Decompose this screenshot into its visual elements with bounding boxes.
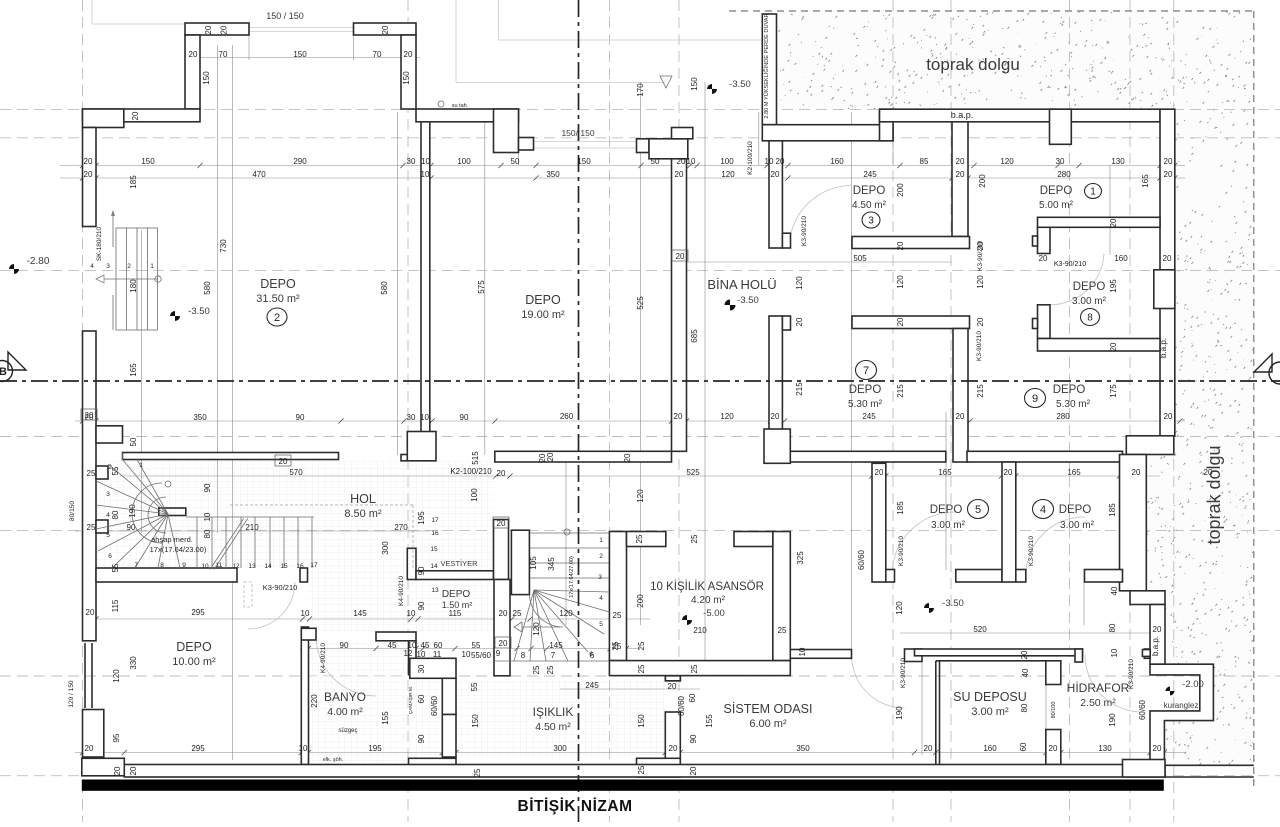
svg-text:3.00 m²: 3.00 m² [971,706,1009,718]
bina holu east wall upper [769,141,782,248]
svg-text:30: 30 [1056,157,1065,166]
svg-text:3: 3 [868,216,874,227]
svg-text:90: 90 [340,641,349,650]
svg-text:20: 20 [875,468,884,477]
section marker right [1269,362,1280,384]
svg-text:55: 55 [472,641,481,650]
svg-text:5: 5 [106,532,110,539]
svg-text:90: 90 [460,413,469,422]
svg-text:25: 25 [611,641,620,650]
svg-text:b.a.p.: b.a.p. [1159,338,1168,358]
svg-text:270: 270 [394,523,408,532]
svg-text:DEPO: DEPO [1073,281,1106,293]
svg-text:30: 30 [417,664,426,673]
svg-text:20: 20 [113,766,122,775]
column at bina holu SE [764,429,790,463]
svg-text:150: 150 [402,71,411,85]
svg-text:20: 20 [189,50,198,59]
svg-text:9: 9 [496,649,501,658]
svg-text:2.80 M YÜKSEKLİĞİNDE PERDE DUV: 2.80 M YÜKSEKLİĞİNDE PERDE DUVAR [763,13,770,118]
svg-text:kuranglez: kuranglez [1164,701,1199,710]
hidrafor door jamb [1075,649,1083,662]
svg-text:165: 165 [129,363,138,377]
svg-text:8: 8 [521,651,526,660]
left wall lower block [83,710,104,758]
svg-text:165: 165 [938,468,952,477]
svg-text:25: 25 [637,641,646,650]
left wall upper segment [83,128,97,227]
svg-text:19.00 m²: 19.00 m² [521,309,565,321]
svg-text:20: 20 [1164,170,1173,179]
svg-text:2: 2 [127,263,131,270]
svg-text:505: 505 [853,254,867,263]
svg-text:160: 160 [1114,254,1128,263]
svg-text:80: 80 [1108,623,1117,632]
isiklik east wall [665,712,680,758]
perde duvar horizontal band [762,125,893,141]
svg-text:25: 25 [635,534,644,543]
svg-text:730: 730 [219,239,228,253]
svg-text:55: 55 [111,466,120,475]
svg-text:8: 8 [160,562,164,569]
svg-text:20: 20 [776,157,785,166]
svg-text:DEPO: DEPO [525,293,561,307]
perde duvar step connector [880,109,894,141]
door arc K3-90/210 depo5 [892,512,956,575]
svg-text:200: 200 [636,594,645,608]
svg-text:100: 100 [720,157,734,166]
svg-text:20: 20 [204,25,213,34]
svg-text:1: 1 [139,462,143,469]
svg-text:3: 3 [106,491,110,498]
svg-text:195: 195 [1109,279,1118,293]
svg-text:20: 20 [771,170,780,179]
svg-text:20: 20 [956,157,965,166]
svg-text:30: 30 [407,157,416,166]
depo7-depo9 divider [953,329,968,463]
column tab [401,455,407,461]
svg-text:20: 20 [404,50,413,59]
svg-text:12: 12 [404,649,413,658]
svg-text:2: 2 [599,553,603,560]
south band depo9-depo4 [967,451,1123,462]
svg-text:150: 150 [202,71,211,85]
svg-text:4: 4 [599,595,603,602]
svg-text:150: 150 [637,714,646,728]
svg-text:180: 180 [129,279,138,293]
svg-text:20: 20 [1164,412,1173,421]
wall vertical right of protrusion [401,35,416,109]
svg-text:10: 10 [201,563,209,570]
banyo niche wall a [409,641,417,675]
svg-text:25: 25 [87,523,96,532]
main stair fan (HOL) [159,508,186,516]
svg-text:150: 150 [690,77,699,91]
svg-text:su tah.: su tah. [452,103,469,109]
wall band y109 right part [416,109,519,122]
dimension tick marks [80,163,1183,755]
svg-text:K4-90/210: K4-90/210 [320,643,327,673]
east wall (depo4 side) [1120,455,1147,591]
svg-text:20: 20 [86,608,95,617]
svg-text:DEPO: DEPO [930,504,963,516]
hatch boundary dashed [1253,11,1255,790]
depo7 north band [852,316,970,329]
su deposu north line [936,660,1046,662]
svg-text:100: 100 [470,488,479,502]
svg-text:DEPO: DEPO [1053,384,1086,396]
lower stair (to elevator) [511,530,529,594]
svg-text:20: 20 [1020,650,1029,659]
svg-text:20: 20 [976,241,985,250]
svg-text:245: 245 [862,412,876,421]
svg-text:DEPO: DEPO [1059,504,1092,516]
svg-text:toprak dolgu: toprak dolgu [1204,445,1224,544]
svg-text:20: 20 [499,639,508,648]
svg-text:1: 1 [1090,187,1096,198]
svg-text:BİNA HOLÜ: BİNA HOLÜ [707,277,776,292]
svg-text:120: 120 [559,609,573,618]
svg-text:DEPO: DEPO [260,277,296,291]
entry band piece [672,128,693,139]
svg-text:20: 20 [956,412,965,421]
svg-text:245: 245 [863,170,877,179]
su deposu west wall line b [939,661,941,765]
section line vertical [578,0,580,822]
stair arrow [104,278,158,280]
svg-text:20: 20 [1109,342,1118,351]
svg-text:55: 55 [470,682,479,691]
svg-text:8.50 m²: 8.50 m² [344,508,382,520]
svg-text:3: 3 [106,263,110,270]
svg-text:130: 130 [1111,157,1125,166]
stair hall north thin band [123,453,339,460]
svg-text:200: 200 [896,183,905,197]
svg-text:20: 20 [976,317,985,326]
door arc K3-90/210 depo3 [789,186,852,249]
svg-text:20: 20 [676,252,685,261]
svg-text:50: 50 [511,157,520,166]
svg-text:4.50 m²: 4.50 m² [535,721,571,733]
svg-text:3.00 m²: 3.00 m² [931,520,966,531]
svg-text:K3-90/210: K3-90/210 [1054,261,1086,268]
svg-text:350: 350 [193,413,207,422]
svg-text:50: 50 [129,437,138,446]
svg-text:ÇAMAŞIR M.: ÇAMAŞIR M. [408,686,414,715]
svg-text:160: 160 [830,157,844,166]
svg-text:2: 2 [274,312,280,324]
svg-text:300: 300 [553,744,567,753]
svg-text:155: 155 [705,714,714,728]
svg-text:130: 130 [1098,744,1112,753]
svg-text:30: 30 [407,413,416,422]
section marker left B [0,361,13,382]
svg-text:5: 5 [975,504,981,516]
south band depo7 [790,451,946,462]
svg-text:10: 10 [798,647,807,656]
isiklik notch [665,676,680,681]
svg-text:20: 20 [896,241,905,250]
svg-text:K2-100/210: K2-100/210 [450,467,492,476]
south band HOL-bina holu left part [495,451,672,462]
east wall pier bap [1154,270,1175,309]
svg-text:HOL: HOL [350,492,376,506]
svg-text:2: 2 [108,464,112,471]
svg-text:115: 115 [449,609,462,618]
su deposu east wall lower [1046,730,1061,765]
svg-text:685: 685 [690,329,699,343]
svg-text:9: 9 [1032,393,1038,405]
banyo east wall lower [442,715,456,758]
svg-text:1: 1 [150,263,154,270]
svg-text:10: 10 [687,157,696,166]
svg-text:10: 10 [462,650,471,659]
bottom outer wall band [124,765,1165,778]
svg-text:150 / 150: 150 / 150 [266,11,304,21]
svg-text:195: 195 [417,511,426,525]
svg-text:20: 20 [497,519,506,528]
east wall step [1130,591,1165,605]
svg-text:25: 25 [690,534,699,543]
svg-text:150: 150 [141,157,155,166]
svg-text:K4-90/210: K4-90/210 [398,576,405,606]
svg-text:220: 220 [310,694,319,708]
svg-text:10: 10 [203,512,212,521]
svg-text:10: 10 [1110,648,1119,657]
svg-text:90: 90 [203,483,212,492]
svg-text:20: 20 [279,457,288,466]
svg-text:190: 190 [1108,713,1117,727]
svg-text:BİTİŞİK NİZAM: BİTİŞİK NİZAM [518,798,633,815]
svg-text:85: 85 [920,157,929,166]
svg-text:7: 7 [863,365,869,377]
svg-text:90: 90 [417,566,426,575]
svg-text:K3-90/210: K3-90/210 [1128,659,1135,689]
svg-text:20: 20 [1164,157,1173,166]
svg-text:20: 20 [1039,254,1048,263]
svg-text:120: 120 [795,276,804,290]
svg-text:105: 105 [529,556,538,570]
svg-text:295: 295 [191,608,205,617]
bottom boundary black bar [82,780,1164,791]
su deposu west wall line a [935,661,937,765]
svg-text:-2.80: -2.80 [27,256,50,267]
svg-text:60/60: 60/60 [857,549,866,570]
svg-text:4: 4 [90,263,94,270]
door arc K3-90/210 depo10 [248,582,295,629]
svg-text:K3-90/210: K3-90/210 [263,583,298,592]
svg-text:120: 120 [1000,157,1014,166]
svg-text:80/100: 80/100 [1051,702,1057,719]
door arc K3-90/210 depo8 [1050,254,1104,305]
svg-text:60: 60 [1019,742,1028,751]
depo5 door jamb [886,570,895,583]
svg-text:-2.00: -2.00 [1182,679,1204,690]
svg-text:150: 150 [577,157,591,166]
svg-text:7: 7 [134,562,138,569]
svg-text:17: 17 [310,562,318,569]
svg-text:95: 95 [112,733,121,742]
svg-text:VESTİYER: VESTİYER [440,559,478,568]
svg-text:SK-180/210: SK-180/210 [96,226,103,261]
wall small tooth [519,138,534,151]
depo5-depo4 divider [1002,462,1016,582]
svg-text:20: 20 [84,157,93,166]
dimension lines [60,165,1185,167]
svg-text:ahşap merd.: ahşap merd. [151,535,193,544]
bottom band step (banyo) [409,758,457,776]
svg-text:115: 115 [111,599,120,612]
svg-text:80: 80 [203,529,212,538]
bina holu east wall lower [769,316,782,451]
svg-text:70: 70 [219,50,228,59]
svg-text:20: 20 [1004,468,1013,477]
bottom extension line a [1165,764,1254,766]
svg-text:20: 20 [1132,468,1141,477]
wall top band left [185,23,249,35]
svg-text:120: 120 [532,622,541,636]
svg-text:25: 25 [546,665,555,674]
svg-text:13: 13 [431,587,439,594]
depo3 south band [852,237,970,249]
banyo north wall piece [376,632,416,641]
svg-text:210: 210 [245,523,259,532]
depo8 bottom band [1038,339,1161,352]
north outer wall band [880,109,1161,122]
svg-text:90: 90 [127,523,136,532]
svg-text:470: 470 [252,170,266,179]
svg-text:20: 20 [771,412,780,421]
band end jamb [300,568,308,582]
svg-text:55: 55 [111,563,120,572]
svg-text:185: 185 [129,175,138,189]
door arc K3-90/210 depo4 [1026,517,1085,575]
svg-text:25: 25 [513,609,522,618]
svg-text:10: 10 [299,744,308,753]
svg-text:5.00 m²: 5.00 m² [1039,200,1074,211]
svg-text:185: 185 [1108,503,1117,517]
su deposu east wall upper [1046,661,1061,685]
svg-text:40: 40 [1110,586,1119,595]
svg-text:17x(17.64/23.00): 17x(17.64/23.00) [150,545,207,554]
left wall step block [96,426,123,443]
wall vertical left of protrusion [185,35,200,109]
svg-text:90: 90 [417,734,426,743]
svg-text:525: 525 [686,468,700,477]
svg-text:145: 145 [549,641,563,650]
svg-text:6.00 m²: 6.00 m² [749,718,787,730]
svg-text:11: 11 [433,650,442,659]
svg-text:15: 15 [430,546,438,553]
svg-text:25: 25 [532,665,541,674]
svg-text:60/60: 60/60 [677,695,686,716]
svg-text:20: 20 [668,682,677,691]
svg-text:100: 100 [457,157,471,166]
svg-text:K2-100/210: K2-100/210 [747,141,754,175]
svg-text:200: 200 [978,174,987,188]
elevator south band [609,661,790,676]
svg-text:2.50 m²: 2.50 m² [1080,697,1116,709]
svg-text:300: 300 [381,541,390,555]
depo10 north band [96,568,237,582]
svg-text:45: 45 [421,641,430,650]
svg-text:K3-90/210: K3-90/210 [801,216,808,246]
bottom band step (isiklik) [637,758,681,777]
depo8 jamb notch b [1033,319,1038,329]
door jamb [782,233,790,248]
svg-text:11: 11 [216,562,223,569]
svg-text:120: 120 [112,669,121,683]
svg-text:20: 20 [1163,254,1172,263]
svg-text:K3-90/210: K3-90/210 [1028,536,1035,566]
stair west wall lower [494,580,510,676]
svg-text:25: 25 [637,664,646,673]
wall pillar block [494,109,519,153]
svg-text:350: 350 [546,170,560,179]
svg-text:DEPO: DEPO [1040,185,1073,197]
svg-text:4.00 m²: 4.00 m² [327,706,363,718]
svg-text:160: 160 [983,744,997,753]
banyo east wall upper [442,678,456,714]
svg-text:3.00 m²: 3.00 m² [1072,296,1107,307]
svg-text:525: 525 [636,296,645,310]
corridor-depo5 west wall [872,463,886,582]
door jamb [782,316,790,330]
svg-text:10 KİŞİLİK ASANSÖR: 10 KİŞİLİK ASANSÖR [650,580,764,593]
svg-text:60: 60 [417,694,426,703]
sistem north thin wall [790,650,851,659]
svg-text:120: 120 [976,275,985,289]
svg-text:580: 580 [203,281,212,295]
svg-text:5: 5 [599,621,603,628]
svg-text:20: 20 [1153,744,1162,753]
perde duvar vertical [762,14,776,125]
svg-text:IŞIKLIK: IŞIKLIK [533,705,574,719]
left wall pier a [96,466,108,479]
svg-text:DEPO: DEPO [442,589,471,600]
svg-text:20: 20 [1153,625,1162,634]
svg-text:190: 190 [895,706,904,720]
svg-text:120: 120 [895,601,904,615]
svg-text:20: 20 [85,411,94,420]
svg-text:6: 6 [108,553,112,560]
svg-text:20: 20 [220,25,229,34]
svg-text:7: 7 [551,651,556,660]
svg-text:20: 20 [795,317,804,326]
svg-text:170: 170 [636,83,645,97]
svg-text:12: 12 [232,563,240,570]
svg-text:25: 25 [637,765,646,774]
svg-text:120 / 150: 120 / 150 [68,680,75,707]
svg-text:-5.00: -5.00 [703,608,725,619]
svg-text:90: 90 [689,734,698,743]
svg-text:185: 185 [896,501,905,515]
window 120/150 line b [91,643,93,708]
svg-text:25: 25 [473,768,482,777]
svg-text:165: 165 [1067,468,1081,477]
depo8 top band [1038,217,1161,227]
north wall pillar 30 [1050,109,1072,144]
svg-text:3.00 m²: 3.00 m² [1060,520,1095,531]
svg-text:6: 6 [589,651,593,658]
svg-text:SİSTEM ODASI: SİSTEM ODASI [724,702,813,716]
svg-text:295: 295 [191,744,205,753]
dotted overhead outline [230,504,413,506]
svg-text:20: 20 [689,766,698,775]
svg-text:10: 10 [765,157,774,166]
svg-text:10: 10 [420,413,429,422]
svg-text:150: 150 [471,714,480,728]
